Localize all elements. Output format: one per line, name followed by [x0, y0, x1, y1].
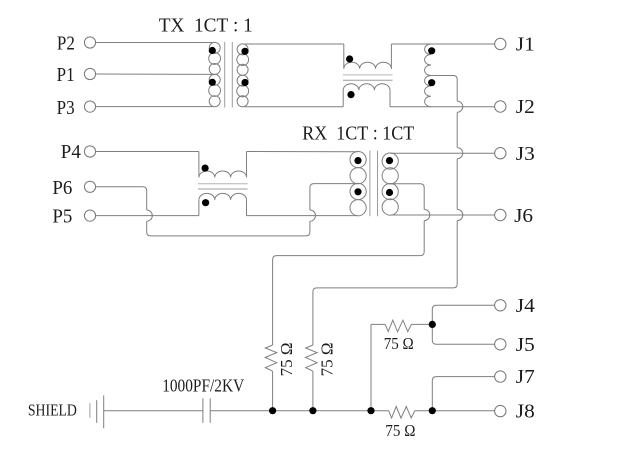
wire choke T2 top exit rise [390, 44, 392, 69]
terminal P3 [84, 101, 95, 112]
wire R3 left vertical [370, 324, 372, 410]
svg-text:J3: J3 [516, 143, 535, 165]
choke T4 top winding [199, 171, 247, 178]
label R4 75 ohm [385, 421, 415, 440]
transformer T3 secondary winding upper [382, 153, 398, 184]
svg-text:J7: J7 [516, 366, 535, 388]
label R2 75 ohm [318, 342, 337, 376]
wire W5 tap to riser [431, 76, 457, 102]
svg-text:75 Ω: 75 Ω [318, 342, 337, 376]
shield bar 2 [96, 400, 98, 423]
transformer T3 primary winding lower [350, 183, 366, 215]
junction R3/R4-bus [367, 407, 374, 414]
svg-text:75 Ω: 75 Ω [385, 421, 415, 440]
core T2 [343, 75, 393, 80]
svg-text:J2: J2 [516, 96, 535, 118]
hop TX riser over J2 [457, 101, 463, 112]
polarity dot T1 primary upper [209, 47, 216, 54]
junction R2-bus [309, 407, 316, 414]
wire node to J5 [432, 324, 494, 344]
svg-text:J1: J1 [516, 34, 535, 56]
svg-text:J4: J4 [516, 295, 535, 317]
transformer T1 primary winding lower [209, 74, 221, 106]
label C1 1000PF/2KV [162, 375, 244, 395]
winding W5 lower (J2 side) [425, 76, 431, 107]
wire RX riser to R1 [273, 221, 425, 345]
core T3 [370, 151, 378, 217]
transformer T1 primary winding upper [209, 42, 221, 74]
label J1 [516, 34, 535, 56]
wire choke T4 top entry drop [198, 152, 200, 178]
polarity dot W5 lower [428, 79, 435, 86]
terminal J8 [495, 405, 506, 416]
terminal J7 [495, 371, 506, 382]
wire T3 tap to riser [390, 184, 425, 210]
polarity dot T3 primary lower [354, 188, 361, 195]
polarity dot T3 primary upper [354, 157, 361, 164]
wire P5 to choke T4 [96, 215, 199, 217]
wire P6 to drop [96, 187, 147, 210]
wire T2 to J2 [390, 106, 495, 108]
junction dot J4/J5 node [429, 321, 436, 328]
wire choke T2 top entry drop [343, 44, 345, 69]
label J3 [516, 143, 535, 165]
label J6 [514, 205, 533, 227]
terminal J1 [495, 38, 506, 49]
wire node to J4 [432, 305, 494, 324]
wire choke T4 top exit rise [246, 152, 248, 178]
polarity dot T1 primary lower [209, 79, 216, 86]
label J4 [516, 295, 535, 317]
hop P6 drop over P5 row [147, 210, 153, 221]
wire T1 to choke T2 bottom [245, 106, 344, 108]
label J8 [516, 401, 535, 423]
svg-text:75 Ω: 75 Ω [384, 334, 414, 353]
label R3 75 ohm [384, 334, 414, 353]
terminal P4 [84, 146, 95, 157]
svg-text:J8: J8 [516, 401, 535, 423]
wire T3 to J3 [391, 152, 495, 154]
wire R1 to bus [272, 371, 274, 411]
wire bus R4 to J8 [415, 410, 495, 412]
label RX 1CT : 1CT [302, 122, 414, 144]
terminal J2 [495, 101, 506, 112]
label SHIELD [28, 401, 77, 420]
svg-text:75 Ω: 75 Ω [277, 342, 296, 376]
junction R1-bus [269, 407, 276, 414]
wire T4 to T3 bottom [247, 215, 358, 217]
resistor R3 75 ohm [385, 320, 411, 332]
terminal J4 [495, 300, 506, 311]
wire P1 to T1 tap [96, 73, 213, 75]
wire T2 to J1 [391, 43, 494, 45]
svg-text:P6: P6 [52, 177, 72, 199]
terminal P1 [84, 68, 95, 79]
label P2 [57, 33, 75, 55]
wire P4 to choke T4 [96, 151, 199, 153]
terminal P2 [84, 37, 95, 48]
wire choke T4 bottom entry rise [198, 200, 200, 216]
label J7 [516, 366, 535, 388]
hop TX riser over J6 [457, 209, 463, 220]
shield bar 3 [103, 395, 105, 428]
hop P6 riser over P5 row [310, 210, 316, 221]
resistor R1 75 ohm [265, 345, 277, 371]
winding W5 upper (J1 side) [425, 44, 431, 76]
label R1 75 ohm [277, 342, 296, 376]
svg-text:J6: J6 [514, 205, 533, 227]
label P4 [61, 141, 81, 163]
wire R2 to bus [312, 371, 314, 411]
svg-text:P1: P1 [57, 64, 75, 86]
wire choke T2 bottom exit drop [389, 90, 391, 107]
wire R3 right lead [411, 323, 432, 325]
polarity dot T4 top [202, 165, 209, 172]
transformer T1 secondary winding lower [237, 75, 249, 107]
transformer T3 primary winding upper [350, 152, 366, 184]
svg-text:P3: P3 [57, 97, 75, 119]
svg-text:J5: J5 [516, 334, 535, 356]
wire T3 to J6 [391, 214, 495, 216]
hop TX riser over J3 [457, 148, 463, 159]
polarity dot T1 secondary lower [241, 79, 248, 86]
wire shield to capacitor [104, 410, 203, 412]
polarity dot T1 secondary upper [241, 48, 248, 55]
resistor R4 75 ohm [389, 407, 415, 419]
svg-text:1000PF/2KV: 1000PF/2KV [162, 375, 244, 395]
wire P2 to T1 [96, 42, 213, 44]
polarity dot T3 secondary lower [386, 189, 393, 196]
polarity dot T2 top [346, 55, 353, 62]
wire choke T4 bottom exit drop [246, 200, 248, 216]
wire J7 to bus [432, 377, 494, 411]
transformer T1 secondary winding upper [237, 44, 249, 75]
label P6 [52, 177, 72, 199]
hop RX riser over J6 [424, 209, 430, 220]
svg-text:P4: P4 [61, 141, 81, 163]
wire riser to T3 primary tap [310, 184, 358, 210]
wire bus capacitor to R4 [210, 410, 388, 412]
polarity dot T3 secondary upper [386, 157, 393, 164]
label P1 [57, 64, 75, 86]
capacitor C1 plate left [202, 398, 204, 423]
polarity dot W5 upper [428, 47, 435, 54]
wire choke T2 bottom entry rise [342, 90, 344, 107]
label TX 1CT : 1 [159, 14, 253, 36]
svg-text:P2: P2 [57, 33, 75, 55]
svg-text:TX 1CT : 1: TX 1CT : 1 [159, 14, 253, 36]
terminal J5 [495, 339, 506, 350]
terminal P5 [84, 210, 95, 221]
wire R3 left lead [371, 323, 385, 325]
capacitor C1 plate right [209, 398, 211, 423]
core T1 [225, 42, 233, 108]
polarity dot T4 bottom [202, 199, 209, 206]
core T4 [198, 184, 248, 189]
transformer T3 secondary winding lower [382, 184, 398, 216]
resistor R2 75 ohm [306, 345, 318, 371]
svg-text:SHIELD: SHIELD [28, 401, 77, 420]
svg-text:P5: P5 [52, 205, 72, 227]
wire TX riser J3-J6 [456, 159, 458, 210]
wire TX riser to R2 [313, 221, 457, 345]
label P3 [57, 97, 75, 119]
shield bar 1 [89, 403, 91, 418]
label J5 [516, 334, 535, 356]
wire P3 to T1 [96, 106, 213, 108]
terminal P6 [84, 181, 95, 192]
label J2 [516, 96, 535, 118]
polarity dot T2 bottom [347, 91, 354, 98]
choke T2 top winding [344, 62, 392, 69]
wire T4 to T3 top [247, 151, 358, 153]
junction J7/R4-bus [429, 407, 436, 414]
choke T4 bottom winding [199, 193, 247, 200]
terminal J6 [495, 209, 506, 220]
terminal J3 [495, 148, 506, 159]
wire T1 to choke T2 top [245, 43, 344, 45]
svg-text:RX 1CT : 1CT: RX 1CT : 1CT [302, 122, 414, 144]
wire P6 run to riser [147, 221, 310, 236]
label P5 [52, 205, 72, 227]
wire TX riser J2-J3 [456, 112, 458, 147]
choke T2 bottom winding [343, 84, 390, 91]
